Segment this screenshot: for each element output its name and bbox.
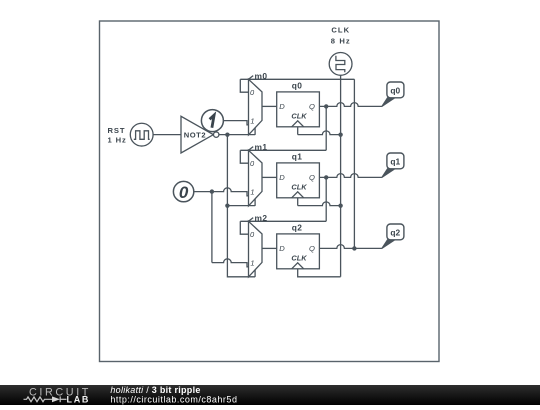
svg-text:Q: Q xyxy=(309,173,315,182)
svg-text:q2: q2 xyxy=(390,228,400,238)
svg-text:Q: Q xyxy=(309,102,315,111)
svg-text:1: 1 xyxy=(250,117,254,126)
svg-text:0: 0 xyxy=(179,183,189,202)
svg-text:q1: q1 xyxy=(390,157,400,167)
svg-text:NOT2: NOT2 xyxy=(184,131,206,140)
svg-text:holikatti / 3 bit ripple: holikatti / 3 bit ripple xyxy=(110,385,200,395)
svg-text:q0: q0 xyxy=(292,80,303,90)
svg-text:LAB: LAB xyxy=(67,395,91,405)
svg-text:1: 1 xyxy=(250,259,254,268)
svg-text:D: D xyxy=(279,173,285,182)
svg-text:D: D xyxy=(279,244,285,253)
svg-text:q2: q2 xyxy=(292,222,303,232)
svg-text:CLK: CLK xyxy=(291,253,307,262)
svg-text:m2: m2 xyxy=(255,213,268,223)
svg-text:1: 1 xyxy=(250,188,254,197)
svg-text:m0: m0 xyxy=(255,71,268,81)
svg-text:CLK: CLK xyxy=(291,182,307,191)
svg-text:8 Hz: 8 Hz xyxy=(331,36,351,45)
svg-text:Q: Q xyxy=(309,244,315,253)
svg-text:D: D xyxy=(279,102,285,111)
svg-text:http://circuitlab.com/c8ahr5d: http://circuitlab.com/c8ahr5d xyxy=(110,395,237,405)
svg-text:CLK: CLK xyxy=(331,26,350,35)
svg-text:1 Hz: 1 Hz xyxy=(108,136,127,145)
svg-text:RST: RST xyxy=(108,126,126,135)
svg-text:CLK: CLK xyxy=(291,111,307,120)
svg-text:m1: m1 xyxy=(255,142,268,152)
svg-text:q0: q0 xyxy=(390,86,400,96)
svg-text:q1: q1 xyxy=(292,151,303,161)
